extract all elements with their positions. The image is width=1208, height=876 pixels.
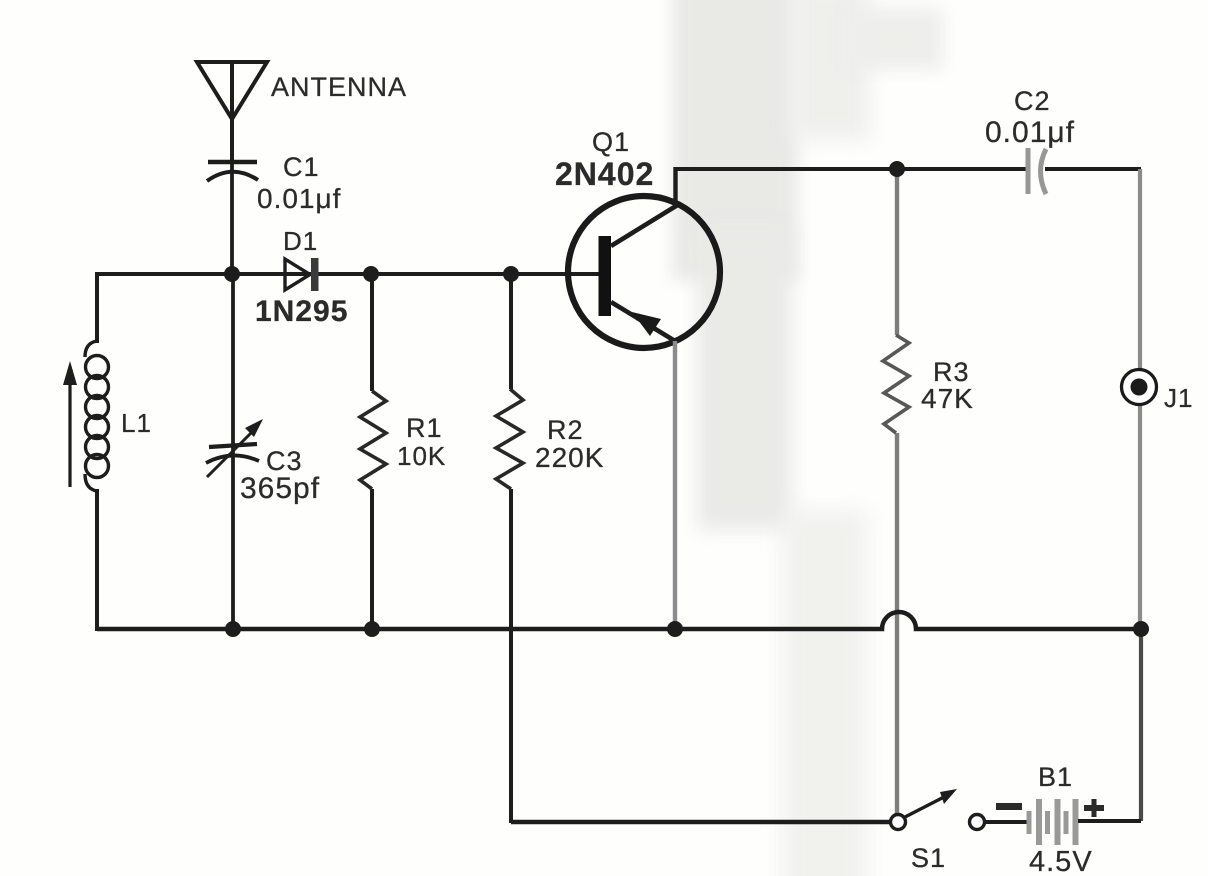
label C1	[283, 152, 320, 182]
label Q1	[592, 127, 630, 157]
wire: bottom line y=822	[511, 820, 891, 824]
label R1 value	[397, 441, 446, 471]
label B1	[1038, 762, 1073, 792]
svg-text:10K: 10K	[397, 441, 446, 471]
svg-text:4.5V: 4.5V	[1029, 846, 1093, 876]
capacitor C1	[207, 160, 258, 276]
label D1	[283, 226, 318, 256]
wire: main common line y=629 with hop over S1 line	[97, 612, 1141, 629]
svg-text:47K: 47K	[921, 383, 974, 414]
label J1	[1164, 383, 1193, 413]
svg-text:R1: R1	[406, 413, 443, 443]
wire: S1 to battery	[984, 820, 1028, 824]
wire: base line y=274	[97, 272, 599, 276]
label R3	[933, 357, 970, 387]
node: base junction R1 top	[363, 266, 379, 282]
node: R1 / common junction	[364, 621, 380, 637]
wire: C3 column x=233	[231, 274, 235, 629]
label L1	[121, 408, 152, 438]
node: base junction R2 top	[503, 266, 519, 282]
svg-text:0.01μf: 0.01μf	[257, 183, 341, 214]
scan speckle patch top	[848, 8, 943, 70]
wire: collector top line y=169	[675, 167, 1141, 171]
scan wash band center lower	[697, 230, 792, 530]
resistor R2	[496, 389, 523, 489]
label C2 value	[985, 116, 1075, 149]
svg-text:ANTENNA: ANTENNA	[271, 72, 407, 102]
L1 direction arrow	[63, 361, 77, 487]
wire: right column x=1140	[1140, 169, 1141, 821]
svg-text:Q1: Q1	[592, 127, 630, 157]
scan wash band center	[672, 0, 798, 280]
diode D1	[285, 258, 319, 291]
node: top wire / R3 junction	[889, 161, 905, 177]
label R1	[406, 413, 443, 443]
svg-text:C2: C2	[1014, 86, 1051, 116]
label C3 value	[240, 472, 320, 505]
wire: battery to right column	[1078, 819, 1141, 823]
svg-text:B1: B1	[1038, 762, 1073, 792]
wire: emitter vertical x=675	[673, 341, 677, 629]
label Q1 type	[555, 156, 654, 192]
resistor R1	[360, 391, 386, 489]
capacitor C2	[1028, 148, 1046, 194]
svg-text:0.01μf: 0.01μf	[985, 116, 1075, 149]
battery minus sign	[996, 803, 1022, 810]
label C1 value	[257, 183, 341, 214]
label R2 value	[535, 442, 604, 473]
svg-text:220K: 220K	[535, 442, 604, 473]
label C2	[1014, 86, 1051, 116]
svg-text:2N402: 2N402	[555, 156, 654, 192]
variable capacitor C3	[206, 419, 263, 477]
label ANTENNA	[271, 72, 407, 102]
label R3 value	[921, 383, 974, 414]
wire: left vertical x=97	[95, 272, 99, 631]
svg-text:S1: S1	[911, 843, 946, 873]
svg-text:J1: J1	[1164, 383, 1193, 413]
battery B1	[1027, 799, 1079, 845]
wire: R1 column x=372	[370, 274, 374, 629]
label R2	[547, 415, 584, 445]
svg-text:R2: R2	[547, 415, 584, 445]
inductor L1	[85, 341, 109, 491]
resistor R3	[883, 335, 909, 433]
node: C3 / common junction	[225, 621, 241, 637]
label D1 value	[255, 295, 348, 328]
node: emitter / common junction	[667, 621, 683, 637]
label C3	[266, 446, 303, 476]
svg-text:D1: D1	[283, 226, 318, 256]
label B1 value	[1029, 846, 1093, 876]
wire: R3 column x=897	[895, 169, 899, 816]
node: right column / common junction	[1133, 621, 1149, 637]
label S1	[911, 843, 946, 873]
antenna	[197, 62, 267, 160]
svg-text:1N295: 1N295	[255, 295, 348, 328]
node: antenna/diode junction	[224, 266, 240, 282]
svg-text:L1: L1	[121, 408, 152, 438]
battery plus sign	[1084, 799, 1104, 817]
switch S1	[891, 789, 985, 830]
svg-text:365pf: 365pf	[240, 472, 320, 505]
wire: R2 column x=511	[509, 274, 513, 823]
transistor Q1	[568, 167, 720, 348]
jack J1	[1122, 370, 1157, 405]
svg-text:C1: C1	[283, 152, 320, 182]
scan wash lower streak	[782, 510, 868, 876]
scan wash top right of band	[792, 0, 870, 140]
